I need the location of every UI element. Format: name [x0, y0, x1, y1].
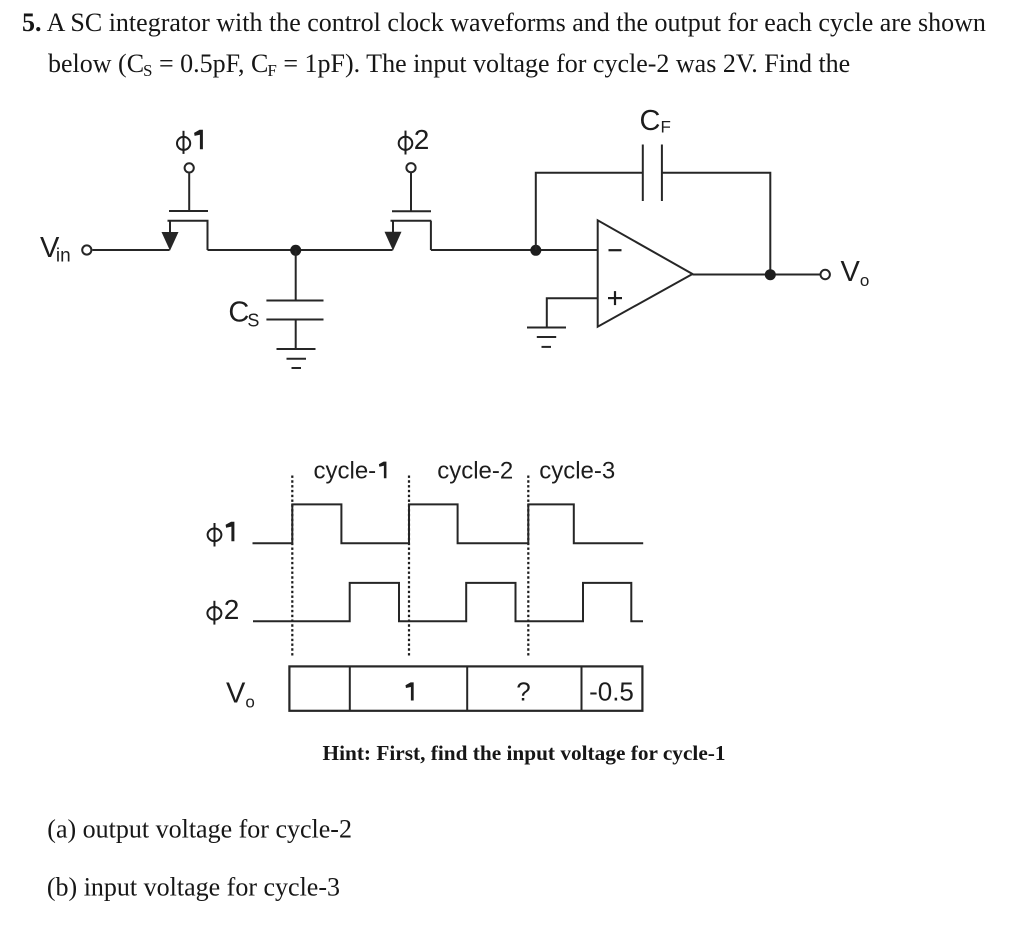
wire node A to CS [295, 250, 297, 301]
svg-text:5. A SC integrator with the co: 5. A SC integrator with the control cloc… [22, 8, 986, 37]
dotted separator t1 [291, 476, 293, 658]
svg-text:CF: CF [640, 105, 671, 137]
node C output junction [765, 269, 776, 280]
clock gate terminal of M2 [406, 163, 415, 210]
wire M2 to op-amp inverting input [431, 249, 598, 251]
svg-text:cycle-2: cycle-2 [437, 457, 513, 484]
wire Vin to M1 [92, 249, 169, 251]
label phi2 (clock) [399, 124, 430, 155]
clock gate terminal of M1 [185, 163, 194, 210]
feedback wire CF to output node [662, 173, 770, 275]
minus input marking [609, 249, 622, 251]
capacitor CF [643, 145, 662, 202]
terminal Vin [82, 245, 91, 254]
table divider 3 [581, 666, 583, 710]
capacitor CS [266, 301, 323, 320]
transistor M2 (switch, phi2) [385, 211, 432, 250]
op-amp U1 [598, 220, 693, 326]
wire CS to ground [295, 320, 297, 350]
waveform phi2 [253, 583, 643, 621]
output wire [693, 274, 821, 276]
ground GND2 [527, 328, 566, 347]
svg-text:2: 2 [414, 124, 430, 155]
label phi1 (waveform row) [208, 522, 235, 547]
dotted separator t3 [527, 476, 529, 658]
ground GND1 [277, 349, 316, 368]
table divider 2 [466, 666, 468, 710]
svg-text:Vo: Vo [841, 256, 870, 290]
svg-text:cycle-3: cycle-3 [539, 457, 615, 484]
feedback wire node B up to CF [536, 173, 643, 250]
table divider 1 [349, 666, 351, 710]
svg-text:(b) input voltage for cycle-3: (b) input voltage for cycle-3 [47, 873, 340, 902]
terminal Vo [821, 270, 830, 279]
svg-text:Hint: First, find the input vo: Hint: First, find the input voltage for … [323, 741, 726, 765]
label phi2 (waveform row) [207, 594, 239, 625]
dotted separator t2 [408, 476, 410, 658]
Vo value table box [289, 666, 642, 710]
svg-text:-0.5: -0.5 [589, 677, 634, 707]
svg-text:CS: CS [228, 296, 259, 330]
node A junction [290, 245, 301, 256]
waveform phi1 [253, 504, 644, 543]
node B junction (inverting input node) [530, 245, 541, 256]
plus input marking [608, 291, 622, 305]
svg-text:cycle-: cycle- [314, 457, 377, 484]
table value 1 [406, 682, 414, 700]
svg-text:Vin: Vin [40, 232, 71, 267]
wire plus input to ground [547, 298, 598, 327]
transistor M1 (switch, phi1) [162, 211, 209, 251]
svg-text:(a) output voltage for cycle-2: (a) output voltage for cycle-2 [47, 815, 352, 844]
wire M1 to M2 [208, 249, 393, 251]
svg-text:2: 2 [224, 594, 240, 625]
label phi1 (clock) [177, 130, 203, 154]
svg-text:?: ? [516, 677, 530, 707]
svg-text:Vo: Vo [226, 677, 255, 711]
svg-text:below (CS = 0.5pF, CF = 1pF).: below (CS = 0.5pF, CF = 1pF). The input … [48, 49, 850, 80]
